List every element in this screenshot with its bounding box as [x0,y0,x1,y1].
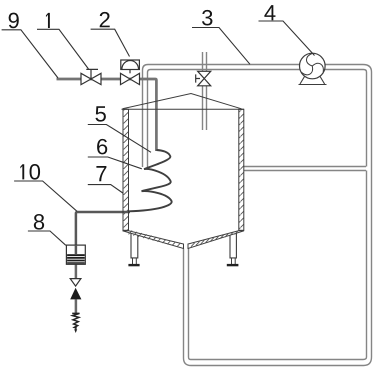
tank bottom cone left band (hatched) [123,231,184,249]
filter 8 [66,245,85,264]
valve 1 (hand valve on inlet) [81,69,101,84]
coil 6 inside tank [129,150,172,211]
label 4 [259,5,315,55]
label 3 [192,10,250,64]
drain valve (below filter) [70,279,81,300]
wire: vent pipe with stub above line 3 [203,52,207,130]
wire: thick coil drain pipe 10 [76,212,130,313]
wire: thick inlet pipe 9 through valves into tank [57,79,157,151]
valve 2 (control valve with diaphragm actuator) [121,60,140,85]
wire: gas loop outer line (top pipe 3, right downcomer, bottom return, tank outlet riser) [143,65,372,366]
tank shell left wall (hatched) [123,109,129,230]
tank left leg [128,233,139,266]
label 7 [88,166,123,193]
label 8 [28,214,66,245]
label 9 [2,13,58,78]
tank roof cone [122,94,245,110]
tank bottom cone right band (hatched) [188,231,244,249]
wire: tank side outlet pipe to downcomer [244,167,366,171]
label 5 [88,106,151,152]
valve on vent pipe (vertical bowtie with handle) [196,71,211,86]
tank right leg [227,233,239,266]
spray nozzle outlet [72,313,79,333]
label 10 [14,164,77,211]
tank shell right wall (hatched) [239,109,244,230]
label 2 [91,12,130,57]
label 1 [37,13,89,69]
wire: gas loop inner line [148,70,367,360]
fan 4 (blower) [299,53,327,84]
label 6 [88,139,142,169]
